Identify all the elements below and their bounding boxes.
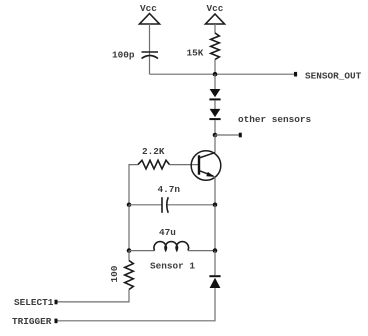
wire C2 to node D [168,204,216,206]
capacitor C1 100p top plate [142,51,159,53]
node F junction dot right [213,248,218,253]
transistor Q1 base bar [198,155,200,174]
svg-text:100: 100 [109,265,120,282]
inductor L1 47u [154,242,189,251]
wire node E to R3 [128,251,130,261]
capacitor C2 4.7n right curved plate [167,197,168,213]
node E junction dot left [127,248,132,253]
svg-text:100p: 100p [112,50,135,61]
pin terminal SENSOR_OUT [294,72,297,77]
wire node A to D1 [214,74,216,89]
node C junction dot left [127,203,132,208]
svg-text:4.7n: 4.7n [158,184,181,195]
pin terminal other sensors [239,133,242,138]
svg-text:Vcc: Vcc [207,3,224,14]
capacitor C1 100p bottom curved plate [142,56,159,59]
wire D3 to TRIGGER line [56,288,215,321]
wire left rail node C to node E [128,205,130,251]
wire sensor-out bus [150,73,295,75]
power symbol Vcc right [206,14,225,24]
diode D3 [209,276,220,288]
wire R3 bottom to SELECT1 line [56,290,129,302]
wire node B to Q1 collector [214,135,216,153]
wire D2 to node B [214,120,216,135]
capacitor C2 4.7n left plate [161,197,163,213]
wire node E to L1 [129,250,155,252]
svg-text:Vcc: Vcc [140,3,157,14]
svg-text:SELECT1: SELECT1 [14,297,54,308]
pin terminal SELECT1 [55,300,58,305]
wire Vcc-left down to C1 [149,24,151,74]
svg-text:SENSOR_OUT: SENSOR_OUT [305,71,362,82]
wire Q1 emitter down to node C [214,177,216,205]
diode D1 [209,89,220,99]
pin terminal TRIGGER [55,319,58,324]
transistor Q1 collector stroke [199,153,215,158]
resistor R2 2.2K [138,160,170,169]
wire node F to D3 [214,251,216,276]
wire Vcc-right down to R1 [214,24,216,34]
node A junction dot [213,72,218,77]
svg-text:47u: 47u [159,227,176,238]
node B junction dot [213,133,218,138]
resistor R1 15K [211,33,220,60]
wire R1 bottom to node A [214,60,216,75]
svg-text:2.2K: 2.2K [142,146,165,157]
wire right rail node D to node F [214,205,216,251]
wire R2 to Q1 base [170,164,200,166]
svg-text:other sensors: other sensors [238,114,312,125]
transistor Q1 emitter stroke with arrow [199,171,215,177]
node D junction dot right [213,203,218,208]
svg-text:15K: 15K [187,48,204,59]
wire D1 to D2 [214,100,216,109]
diode D2 [209,109,220,119]
power symbol Vcc left [140,14,160,25]
svg-text:TRIGGER: TRIGGER [12,316,52,327]
wire node B to other-sensors terminal [215,134,240,136]
wire L1 to node F [188,250,215,252]
transistor Q1 body circle [191,151,221,181]
wire node left to C2 [129,204,162,206]
wire left rail top corner to R2 [129,165,138,205]
resistor R3 100 [125,261,134,290]
svg-text:Sensor 1: Sensor 1 [150,261,195,272]
